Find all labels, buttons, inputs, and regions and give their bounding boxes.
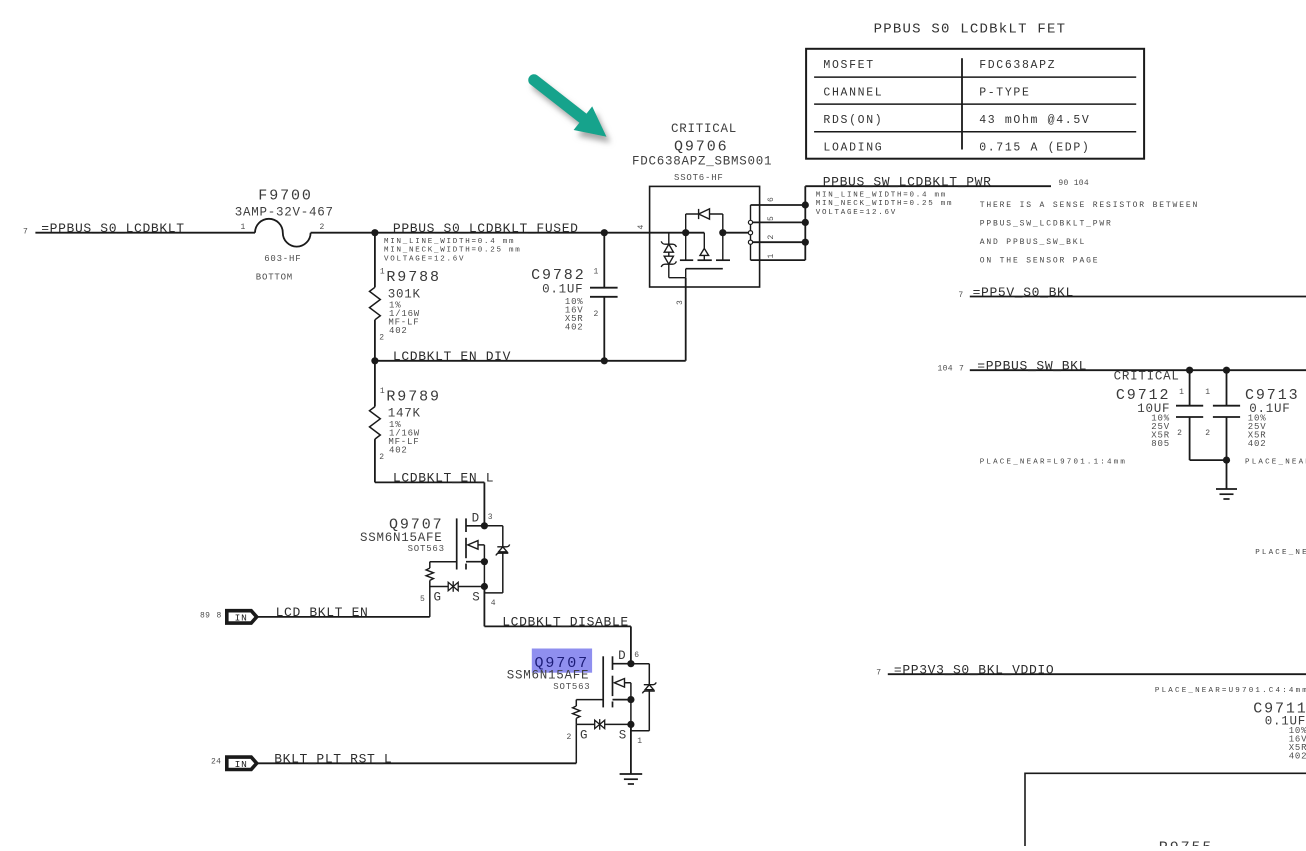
svg-text:ON THE SENSOR PAGE: ON THE SENSOR PAGE [980, 256, 1100, 265]
svg-text:2: 2 [767, 234, 776, 239]
svg-text:PLACE_NEAR=L9701.1:4mm: PLACE_NEAR=L9701.1:4mm [980, 458, 1127, 466]
svg-text:1: 1 [241, 223, 246, 232]
svg-text:1: 1 [380, 268, 385, 277]
svg-text:6: 6 [767, 197, 776, 202]
svg-text:MIN_LINE_WIDTH=0.4 mm: MIN_LINE_WIDTH=0.4 mm [384, 238, 515, 246]
svg-text:24: 24 [211, 758, 221, 767]
svg-text:147K: 147K [388, 407, 421, 421]
svg-text:4: 4 [637, 224, 646, 229]
svg-text:0.715 A (EDP): 0.715 A (EDP) [979, 142, 1090, 155]
svg-text:F9700: F9700 [258, 187, 313, 204]
svg-text:301K: 301K [388, 287, 421, 301]
svg-text:BKLT_PLT_RST_L: BKLT_PLT_RST_L [274, 752, 392, 767]
svg-text:Q9706: Q9706 [674, 139, 729, 156]
svg-text:RDS(ON): RDS(ON) [823, 114, 883, 127]
svg-text:VOLTAGE=12.6V: VOLTAGE=12.6V [384, 255, 465, 263]
svg-text:2: 2 [379, 453, 384, 462]
svg-text:THERE IS A SENSE RESISTOR BETW: THERE IS A SENSE RESISTOR BETWEEN [980, 201, 1199, 210]
svg-text:402: 402 [565, 322, 584, 332]
svg-text:0.1UF: 0.1UF [542, 283, 583, 297]
svg-text:6: 6 [634, 651, 639, 660]
svg-text:LOADING: LOADING [823, 142, 883, 155]
svg-text:805: 805 [1151, 439, 1170, 449]
svg-text:603-HF: 603-HF [264, 254, 301, 264]
svg-text:4: 4 [491, 599, 496, 608]
svg-text:1: 1 [594, 268, 599, 277]
svg-text:1: 1 [767, 253, 776, 258]
svg-text:G: G [580, 729, 588, 743]
svg-text:3AMP-32V-467: 3AMP-32V-467 [235, 205, 334, 219]
svg-text:S: S [619, 729, 627, 743]
svg-text:S: S [472, 591, 480, 605]
svg-text:SOT563: SOT563 [553, 682, 590, 692]
svg-text:PLACE_NEAR=: PLACE_NEAR= [1245, 458, 1306, 466]
svg-text:MIN_LINE_WIDTH=0.4 mm: MIN_LINE_WIDTH=0.4 mm [816, 191, 947, 199]
svg-text:G: G [434, 591, 442, 605]
svg-text:LCDBKLT_DISABLE: LCDBKLT_DISABLE [502, 615, 629, 630]
svg-text:SOT563: SOT563 [408, 544, 445, 554]
svg-text:1: 1 [637, 737, 642, 746]
svg-text:402: 402 [389, 445, 408, 455]
svg-text:402: 402 [1248, 439, 1267, 449]
svg-text:SSM6N15AFE: SSM6N15AFE [507, 669, 590, 683]
svg-text:BOTTOM: BOTTOM [256, 272, 293, 282]
svg-text:C9782: C9782 [531, 267, 586, 284]
svg-text:IN: IN [235, 612, 248, 623]
svg-text:7: 7 [958, 291, 963, 300]
svg-text:1: 1 [1179, 388, 1184, 397]
svg-text:=PP3V3_S0_BKL_VDDIO: =PP3V3_S0_BKL_VDDIO [894, 663, 1054, 678]
svg-text:2: 2 [567, 733, 572, 742]
svg-text:D: D [618, 649, 626, 663]
svg-text:R9789: R9789 [386, 388, 441, 405]
svg-text:402: 402 [1289, 752, 1306, 762]
svg-text:3: 3 [488, 513, 493, 522]
svg-text:8: 8 [217, 612, 222, 621]
svg-text:PPBUS S0 LCDBkLT FET: PPBUS S0 LCDBkLT FET [874, 21, 1067, 37]
svg-text:2: 2 [320, 223, 325, 232]
svg-text:PPBUS_SW_LCDBKLT_PWR: PPBUS_SW_LCDBKLT_PWR [980, 220, 1113, 229]
svg-text:MIN_NECK_WIDTH=0.25 mm: MIN_NECK_WIDTH=0.25 mm [816, 200, 954, 208]
svg-text:104: 104 [938, 365, 953, 374]
svg-text:PLACE_NEAR: PLACE_NEAR [1255, 549, 1306, 557]
svg-text:LCDBKLT_EN_DIV: LCDBKLT_EN_DIV [393, 349, 511, 364]
svg-text:SSOT6-HF: SSOT6-HF [674, 173, 724, 183]
svg-text:P-TYPE: P-TYPE [979, 86, 1030, 99]
svg-text:=PPBUS_S0_LCDBKLT: =PPBUS_S0_LCDBKLT [41, 221, 185, 236]
svg-text:CRITICAL: CRITICAL [671, 122, 737, 136]
svg-text:CHANNEL: CHANNEL [823, 86, 883, 99]
svg-text:2: 2 [594, 310, 599, 319]
svg-text:=PP5V_S0_BKL: =PP5V_S0_BKL [973, 285, 1074, 300]
svg-text:7: 7 [23, 228, 28, 237]
svg-text:MOSFET: MOSFET [823, 59, 874, 72]
svg-text:43 mOhm @4.5V: 43 mOhm @4.5V [979, 114, 1090, 127]
svg-text:2: 2 [1177, 429, 1182, 438]
svg-text:R9755: R9755 [1159, 840, 1214, 847]
svg-text:89: 89 [200, 612, 210, 621]
svg-text:LCDBKLT_EN_L: LCDBKLT_EN_L [393, 471, 494, 486]
svg-text:1: 1 [380, 387, 385, 396]
svg-text:2: 2 [1205, 429, 1210, 438]
svg-text:VOLTAGE=12.6V: VOLTAGE=12.6V [816, 209, 897, 217]
svg-text:5: 5 [767, 216, 776, 221]
svg-text:=PPBUS_SW_BKL: =PPBUS_SW_BKL [977, 359, 1087, 374]
svg-text:1: 1 [1205, 388, 1210, 397]
svg-text:PLACE_NEAR=U9701.C4:4mm: PLACE_NEAR=U9701.C4:4mm [1155, 687, 1306, 695]
svg-text:PPBUS_SW_LCDBKLT_PWR: PPBUS_SW_LCDBKLT_PWR [823, 175, 992, 190]
svg-text:PPBUS_S0_LCDBKLT_FUSED: PPBUS_S0_LCDBKLT_FUSED [393, 221, 579, 236]
svg-text:FDC638APZ: FDC638APZ [979, 59, 1056, 72]
svg-text:90 104: 90 104 [1058, 179, 1089, 188]
svg-text:SSM6N15AFE: SSM6N15AFE [360, 531, 443, 545]
svg-text:AND PPBUS_SW_BKL: AND PPBUS_SW_BKL [980, 238, 1086, 247]
svg-text:FDC638APZ_SBMS001: FDC638APZ_SBMS001 [632, 155, 772, 169]
svg-text:3: 3 [676, 300, 685, 305]
svg-text:MIN_NECK_WIDTH=0.25 mm: MIN_NECK_WIDTH=0.25 mm [384, 247, 522, 255]
svg-text:D: D [472, 511, 480, 525]
svg-text:7: 7 [876, 668, 881, 677]
svg-text:CRITICAL: CRITICAL [1114, 369, 1180, 383]
svg-text:2: 2 [379, 334, 384, 343]
svg-text:R9788: R9788 [386, 269, 441, 286]
svg-text:IN: IN [235, 759, 248, 770]
svg-text:5: 5 [420, 595, 425, 604]
svg-text:402: 402 [389, 326, 408, 336]
svg-text:LCD_BKLT_EN: LCD_BKLT_EN [276, 605, 369, 620]
svg-text:7: 7 [959, 365, 964, 374]
